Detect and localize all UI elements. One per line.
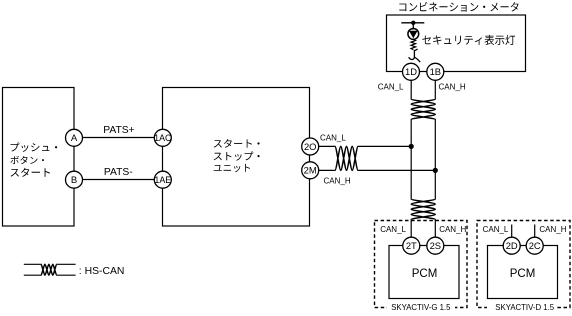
svg-text:2M: 2M xyxy=(304,165,317,176)
svg-text:CAN_L: CAN_L xyxy=(483,225,509,234)
svg-text:1AE: 1AE xyxy=(154,175,171,185)
svg-text:2S: 2S xyxy=(430,240,441,251)
svg-text:PATS+: PATS+ xyxy=(103,125,134,136)
svg-text:1AC: 1AC xyxy=(154,133,172,143)
svg-text:CAN_H: CAN_H xyxy=(439,83,466,92)
svg-text:2O: 2O xyxy=(304,141,317,152)
svg-text:CAN_L: CAN_L xyxy=(380,225,406,234)
svg-text:CAN_L: CAN_L xyxy=(378,83,404,92)
svg-text:PCM: PCM xyxy=(510,268,536,280)
svg-text:B: B xyxy=(71,175,77,186)
svg-text:PATS-: PATS- xyxy=(104,167,133,178)
svg-text:PCM: PCM xyxy=(412,268,438,280)
svg-text:1B: 1B xyxy=(430,66,441,77)
svg-text:CAN_L: CAN_L xyxy=(320,134,346,143)
svg-text:CAN_H: CAN_H xyxy=(439,225,466,234)
svg-text:SKYACTIV-G 1.5: SKYACTIV-G 1.5 xyxy=(391,303,451,312)
svg-text:2C: 2C xyxy=(529,240,541,251)
svg-text:: HS-CAN: : HS-CAN xyxy=(79,266,125,277)
svg-text:SKYACTIV-D 1.5: SKYACTIV-D 1.5 xyxy=(495,303,554,312)
svg-text:2T: 2T xyxy=(406,240,417,251)
svg-text:CAN_H: CAN_H xyxy=(324,177,351,186)
svg-text:1D: 1D xyxy=(405,66,417,77)
svg-text:2D: 2D xyxy=(506,240,518,251)
svg-text:CAN_H: CAN_H xyxy=(539,225,566,234)
svg-text:A: A xyxy=(71,133,78,144)
